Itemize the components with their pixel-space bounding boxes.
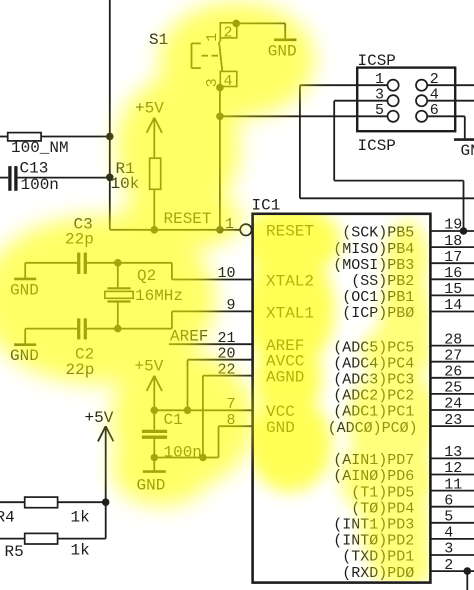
wire: RESET net horizontal to IC pin 1 bubble: [110, 229, 240, 231]
supply +5V (above R1): [135, 100, 164, 159]
connector ICSP header box: [357, 68, 455, 132]
connector ICSP pads: [388, 80, 428, 122]
node: junction C1 / GND rail: [151, 454, 159, 462]
op-amp/mcu IC1 box: [253, 214, 431, 583]
node: junction C13 / vertical bus: [106, 174, 114, 182]
wire: ICSP pin4 out right: [427, 100, 474, 102]
pin number 12 / pin wire: [430, 460, 474, 477]
wire: ICSP pin2 out right: [427, 84, 474, 86]
svg-text:25: 25: [444, 380, 462, 397]
svg-text:18: 18: [444, 233, 462, 250]
pin number 14 / pin wire: [430, 297, 474, 314]
pin number 3 / pin wire: [430, 541, 474, 558]
pin bubble: RESET (pin 1): [240, 224, 251, 235]
node: switch pins 1-2 tie: [232, 20, 240, 28]
svg-text:26: 26: [444, 364, 462, 381]
node: junction C2 / crystal bottom: [114, 325, 122, 333]
wire: AVCC riser to IC pin 20: [188, 360, 253, 411]
wire: GND rail to IC pin 8: [154, 426, 252, 457]
wire: AGND drop to IC pin 22: [203, 376, 253, 458]
switch S1 actuator: [192, 43, 219, 68]
pin number 24 / pin wire: [430, 396, 474, 413]
ground symbol (C2): [10, 329, 39, 365]
crystal Q2: [105, 263, 133, 329]
capacitor C1: [142, 410, 167, 457]
pin number 15 / pin wire: [430, 281, 474, 298]
resistor R5: [0, 502, 106, 544]
node: junction C3 / crystal top: [114, 259, 122, 267]
wire: switch pin2 to GND: [236, 23, 285, 38]
switch S1 lever: [219, 38, 222, 71]
svg-text:1k: 1k: [71, 508, 90, 526]
svg-text:23: 23: [444, 412, 462, 429]
svg-text:2: 2: [444, 557, 453, 574]
svg-text:10: 10: [217, 265, 235, 282]
svg-text:24: 24: [444, 396, 462, 413]
resistor R1: [150, 158, 161, 230]
pin number 4 / pin wire: [430, 525, 474, 542]
pin number 18 / pin wire: [430, 233, 474, 250]
svg-text:12: 12: [444, 460, 462, 477]
svg-text:9: 9: [226, 297, 235, 314]
node: junction AVCC tap: [184, 407, 192, 415]
svg-text:16: 16: [444, 265, 462, 282]
svg-text:5: 5: [375, 102, 384, 119]
switch S1 pin box 3/4: [220, 71, 237, 86]
svg-text:2: 2: [430, 71, 439, 88]
wire: RESET to ICSP pin5: [220, 115, 388, 117]
svg-text:4: 4: [444, 525, 453, 542]
node: junction R4 / R5 / +5V: [102, 498, 110, 506]
svg-text:3: 3: [444, 541, 453, 558]
svg-text:4: 4: [430, 86, 439, 103]
node: junction AGND / GND rail: [199, 454, 207, 462]
wire: ICSP pin1 (MISO): [300, 85, 474, 198]
svg-text:14: 14: [444, 297, 462, 314]
wire: +5V to IC VCC pin 7: [154, 409, 252, 411]
pin number 17 / pin wire: [430, 249, 474, 266]
svg-text:+5V: +5V: [85, 409, 114, 427]
capacitor C2: [25, 318, 172, 339]
supply +5V (bottom left): [85, 409, 114, 502]
svg-text:28: 28: [444, 331, 462, 348]
pin number 19 / pin wire: [430, 217, 474, 234]
resistor 100_NM: [0, 133, 106, 141]
node: switch pins 3-4 tie: [216, 84, 224, 92]
capacitor C3: [25, 253, 172, 274]
wire: XTAL2 jog into IC pin 10: [172, 263, 253, 280]
pin number 25 / pin wire: [430, 380, 474, 397]
pin number 28 / pin wire: [430, 331, 474, 348]
svg-text:20: 20: [217, 345, 235, 362]
svg-text:1: 1: [375, 71, 384, 88]
wire: PD0 drop to bottom edge: [466, 571, 468, 590]
node: junction ICSP pin5 tap: [216, 113, 224, 121]
svg-text:R4: R4: [0, 508, 15, 526]
svg-text:3: 3: [375, 86, 384, 103]
svg-text:ICSP: ICSP: [358, 137, 396, 155]
pin number 11 / pin wire: [430, 476, 474, 493]
capacitor C13: [0, 166, 106, 191]
wire: ICSP pin6 to GND: [427, 116, 465, 138]
node: junction RESET wire / switch: [216, 226, 224, 234]
svg-text:13: 13: [444, 444, 462, 461]
svg-text:5: 5: [444, 509, 453, 526]
ground symbol (right of ICSP): [454, 140, 474, 160]
ground symbol (C3): [10, 263, 39, 300]
node: junction +5V / C1: [151, 407, 159, 415]
svg-text:C13: C13: [20, 160, 49, 178]
node: junction 100_NM / vertical bus: [106, 133, 114, 141]
svg-text:17: 17: [444, 249, 462, 266]
svg-text:27: 27: [444, 347, 462, 364]
svg-text:1k: 1k: [71, 541, 90, 559]
svg-text:21: 21: [217, 330, 235, 347]
wire: AREF stub to IC pin 21: [169, 343, 253, 345]
svg-text:100_NM: 100_NM: [11, 139, 69, 157]
pin number 16 / pin wire: [430, 265, 474, 282]
pin number 13 / pin wire: [430, 444, 474, 461]
pin number 2 / pin wire: [430, 557, 474, 574]
pin number 27 / pin wire: [430, 347, 474, 364]
wire: ICSP pin3 (SCK) to PB5: [334, 101, 463, 231]
svg-text:6: 6: [430, 102, 439, 119]
pin number 23 / pin wire: [430, 412, 474, 429]
svg-text:15: 15: [444, 281, 462, 298]
ground symbol (C1): [137, 458, 166, 495]
svg-text:100n: 100n: [21, 176, 59, 194]
svg-text:6: 6: [444, 492, 453, 509]
svg-text:11: 11: [444, 476, 462, 493]
pin number 5 / pin wire: [430, 509, 474, 526]
pin number 26 / pin wire: [430, 364, 474, 381]
svg-text:IC1: IC1: [252, 196, 281, 214]
node: junction PB5 / ICSP SCK: [460, 227, 468, 235]
wire: switch to RESET net: [219, 87, 221, 230]
supply +5V (at VCC): [135, 357, 164, 410]
node: junction PD0 net: [464, 567, 472, 575]
ground symbol (top, at S1): [268, 40, 297, 61]
svg-text:19: 19: [444, 217, 462, 234]
switch S1 pin box 1/2: [220, 23, 237, 38]
svg-text:R5: R5: [5, 543, 24, 561]
resistor R4: [0, 497, 106, 508]
node: junction R1 / RESET wire: [151, 226, 159, 234]
wire: XTAL1 jog into IC pin 9: [172, 311, 253, 328]
pin number 6 / pin wire: [430, 492, 474, 509]
svg-text:GND: GND: [461, 142, 474, 160]
wire: vertical net from top edge down to RESET row: [109, 0, 111, 230]
